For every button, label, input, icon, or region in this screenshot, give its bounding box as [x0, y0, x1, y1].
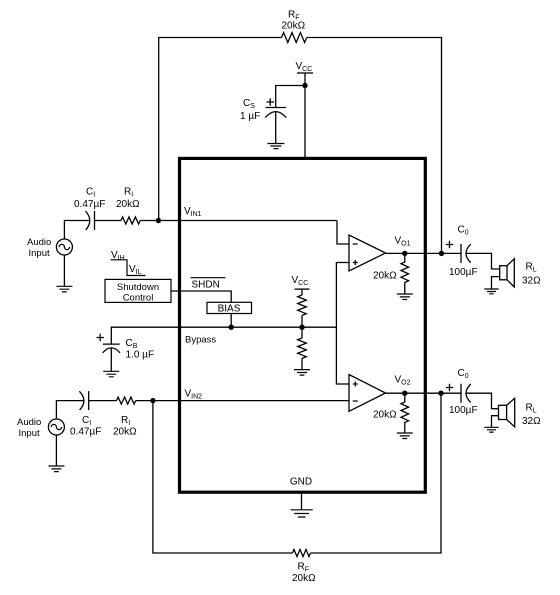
ground below source 2	[48, 466, 64, 472]
wire source1 top	[64, 221, 89, 240]
plus sign CO2	[446, 384, 454, 392]
svg-text:1.0 µF: 1.0 µF	[126, 350, 155, 361]
wire source2 to ground	[55, 435, 57, 466]
junction dot bias/bypass	[229, 325, 234, 330]
svg-text:100µF: 100µF	[449, 405, 478, 416]
wire VCC stem	[304, 73, 306, 157]
junction dot VO1/RF	[439, 251, 444, 256]
svg-text:20kΩ: 20kΩ	[282, 21, 306, 32]
wire cap to resistor row1	[95, 220, 122, 222]
wire CO1 to speaker	[466, 253, 500, 289]
junction dot VIN1	[156, 218, 161, 223]
wire output op-amp2	[386, 392, 462, 394]
svg-text:Input: Input	[29, 248, 50, 259]
wire GND stem	[301, 493, 303, 510]
wire source2 top	[56, 401, 84, 419]
speaker RL2	[499, 405, 507, 419]
capacitor CI row2	[79, 391, 88, 410]
wire top feedback loop	[159, 38, 442, 254]
wire CO2 to speaker	[466, 393, 499, 427]
wire to op-amp plus inputs	[336, 263, 349, 385]
power bar VCC internal	[295, 288, 310, 290]
power bar VCC	[297, 72, 313, 74]
svg-text:32Ω: 32Ω	[522, 276, 541, 287]
ground below source 1	[56, 286, 72, 292]
svg-text:Audio: Audio	[27, 237, 51, 248]
junction dot divider/bypass	[299, 325, 304, 330]
capacitor CI row1	[86, 211, 95, 230]
junction dot VIN2	[150, 398, 155, 403]
wire CS to ground	[275, 112, 277, 144]
wire VIN1 step to op-amp minus	[337, 221, 349, 245]
resistor 20k op1	[401, 253, 409, 294]
capacitor CO2	[461, 384, 471, 403]
svg-text:GND: GND	[290, 477, 312, 488]
wire output op-amp1	[386, 252, 462, 254]
svg-text:Input: Input	[19, 428, 40, 439]
wire resistor to IC row1	[140, 220, 337, 222]
svg-text:0.47µF: 0.47µF	[70, 427, 101, 438]
svg-text:Shutdown: Shutdown	[117, 282, 159, 293]
wire bypass row	[111, 327, 336, 344]
wire bottom feedback loop	[153, 393, 441, 553]
ground below 20k op2	[397, 433, 413, 439]
svg-text:20kΩ: 20kΩ	[113, 427, 137, 438]
svg-text:20kΩ: 20kΩ	[373, 410, 397, 421]
resistor RI row1	[121, 217, 140, 224]
svg-text:Audio: Audio	[17, 417, 41, 428]
op-amp U1B	[349, 375, 386, 412]
resistor RI row2	[117, 397, 136, 404]
svg-text:20kΩ: 20kΩ	[116, 199, 140, 210]
wire BIAS to bypass	[230, 314, 232, 328]
capacitor CS	[265, 108, 286, 118]
wire divider to ground	[301, 358, 303, 369]
junction dot VO1 feedback	[402, 251, 407, 256]
ground below divider	[294, 370, 310, 376]
wire cap to resistor row2	[89, 400, 117, 402]
plus sign CO1	[446, 241, 454, 249]
svg-text:1 µF: 1 µF	[240, 111, 260, 122]
resistor divider top	[298, 295, 307, 315]
BIAS box	[207, 302, 252, 313]
plus sign CB	[96, 334, 104, 342]
ground below IC	[291, 510, 313, 517]
wire CS branch	[276, 86, 305, 108]
ground below speaker 1	[484, 289, 498, 294]
wire source1 to ground	[63, 255, 65, 286]
wire shutdown to bias	[171, 291, 231, 302]
ground below CB	[103, 371, 119, 377]
resistor RF bottom	[293, 549, 311, 556]
op-amp U1A	[349, 235, 386, 271]
svg-text:20kΩ: 20kΩ	[373, 271, 397, 282]
shutdown control box	[105, 279, 171, 302]
svg-text:SHDN: SHDN	[192, 280, 220, 291]
capacitor CB	[103, 344, 120, 353]
svg-text:BIAS: BIAS	[218, 304, 241, 315]
resistor divider bottom	[298, 338, 307, 358]
resistor 20k op2	[401, 393, 409, 433]
wire VCC bar to resistor	[301, 289, 303, 295]
capacitor CO1	[461, 244, 471, 263]
IC package outline U1	[180, 158, 426, 492]
svg-text:32Ω: 32Ω	[522, 416, 541, 427]
ground below 20k op1	[397, 294, 413, 300]
wire CB to ground	[110, 348, 112, 372]
svg-text:Control: Control	[123, 293, 154, 304]
wire resistor to op-amp2 row2	[136, 400, 349, 402]
junction dot VCC/CS	[302, 83, 307, 88]
speaker RL1	[500, 266, 507, 280]
svg-text:0.47µF: 0.47µF	[74, 199, 105, 210]
svg-text:20kΩ: 20kΩ	[292, 573, 316, 584]
resistor RF top	[282, 33, 307, 43]
junction dot VO2 feedback	[402, 391, 407, 396]
svg-text:Bypass: Bypass	[185, 335, 216, 346]
ground below CS	[267, 144, 284, 149]
plus sign CS	[267, 98, 275, 106]
junction dot VO2/RF	[438, 391, 443, 396]
svg-text:100µF: 100µF	[449, 267, 478, 278]
ground below speaker 2	[484, 427, 498, 432]
wire divider mid	[301, 315, 303, 338]
